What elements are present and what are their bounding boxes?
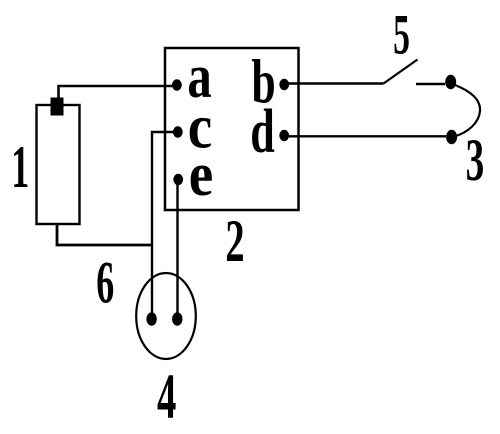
svg-text:e: e xyxy=(189,140,213,209)
svg-text:1: 1 xyxy=(11,134,29,201)
svg-text:d: d xyxy=(250,97,275,166)
svg-text:3: 3 xyxy=(466,127,485,193)
svg-text:4: 4 xyxy=(157,359,176,432)
svg-text:6: 6 xyxy=(96,249,114,316)
svg-text:2: 2 xyxy=(225,207,244,274)
svg-text:5: 5 xyxy=(393,4,410,67)
